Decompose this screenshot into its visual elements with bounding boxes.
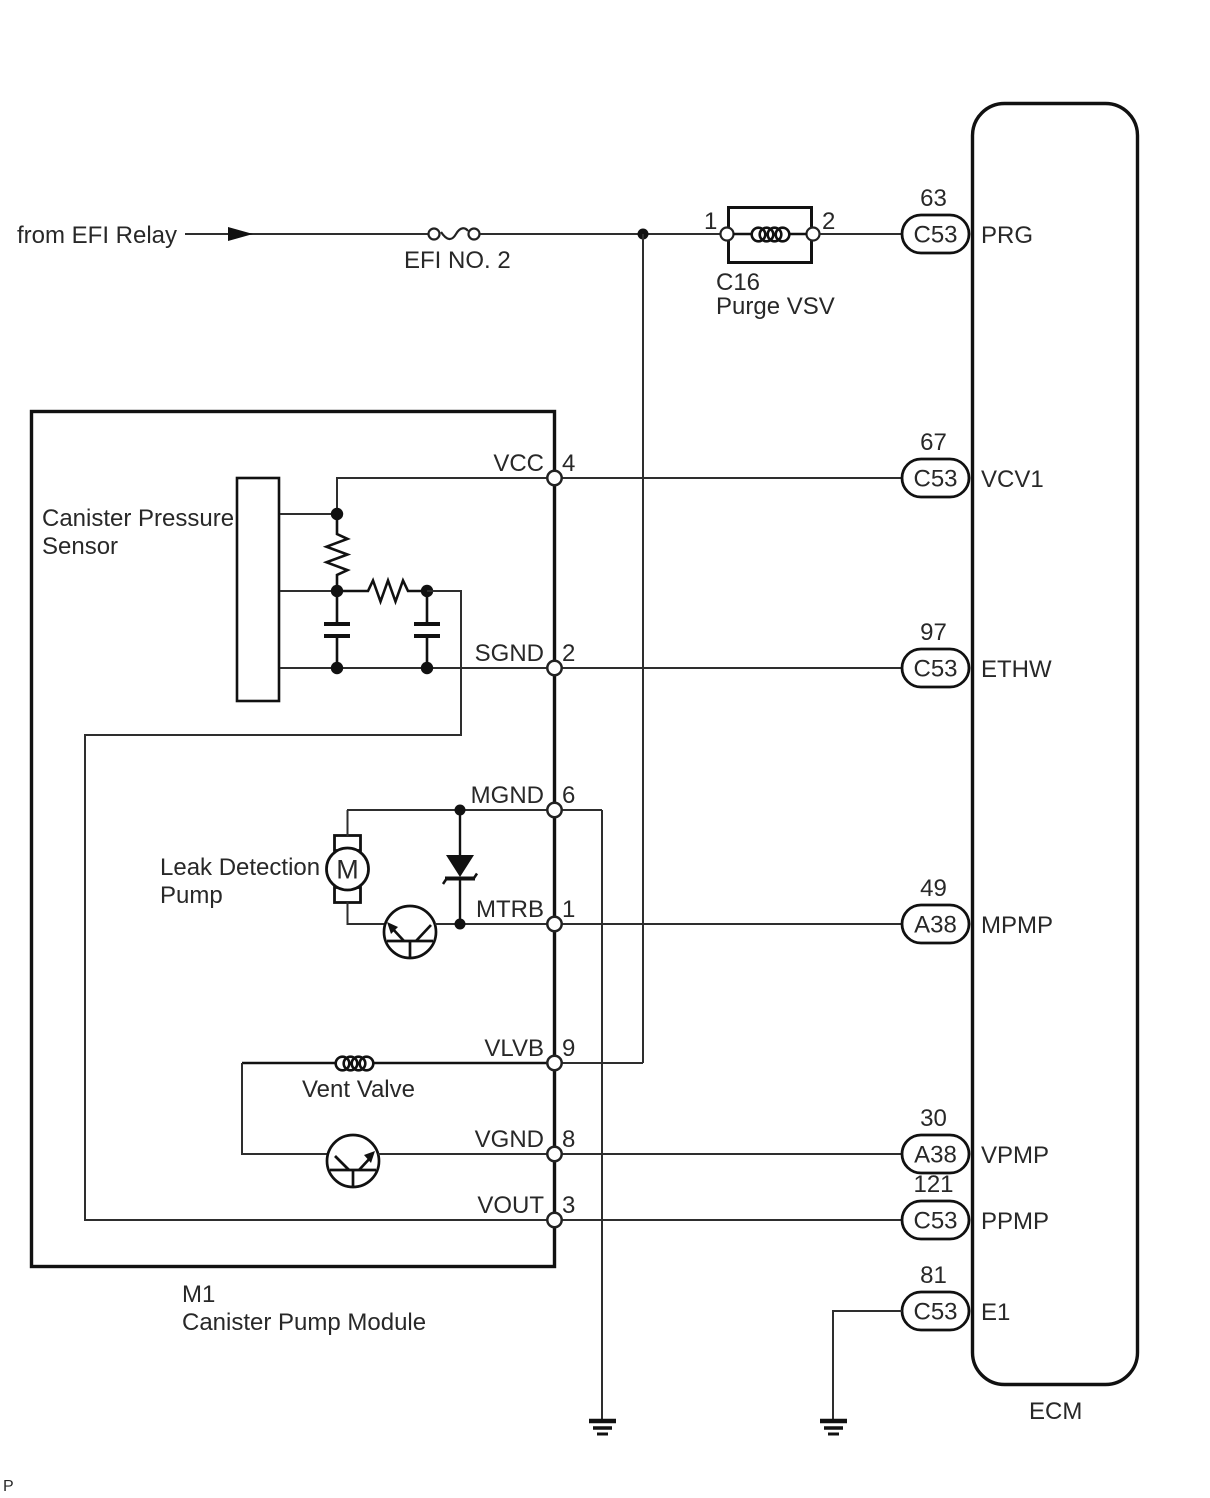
svg-text:VGND: VGND	[475, 1126, 544, 1153]
svg-text:Sensor: Sensor	[42, 533, 118, 560]
svg-text:MTRB: MTRB	[476, 896, 544, 923]
svg-text:P: P	[3, 1478, 14, 1495]
svg-text:8: 8	[562, 1126, 575, 1153]
wire VLVB pin to vertical bus	[561, 1062, 643, 1064]
svg-text:ETHW: ETHW	[981, 656, 1052, 683]
fuse EFI NO. 2	[429, 228, 480, 239]
svg-text:VPMP: VPMP	[981, 1142, 1049, 1169]
wire from EFI Relay to fuse	[185, 233, 428, 235]
capacitor C2	[414, 591, 440, 668]
svg-text:Purge VSV: Purge VSV	[716, 293, 835, 320]
svg-text:VOUT: VOUT	[477, 1192, 544, 1219]
solenoid C16 Purge VSV box	[704, 208, 835, 263]
arrowhead on EFI relay wire	[228, 227, 253, 241]
connector C53 pin 63 (PRG)	[902, 185, 969, 253]
svg-text:PRG: PRG	[981, 222, 1033, 249]
node dot sensor top	[331, 508, 343, 520]
svg-text:9: 9	[562, 1035, 575, 1062]
node dot diode top	[455, 805, 466, 816]
svg-text:SGND: SGND	[475, 640, 544, 667]
svg-text:VCV1: VCV1	[981, 466, 1044, 493]
Leak Detection Pump motor M	[327, 836, 369, 903]
connector C53 pin 121 (PPMP)	[902, 1171, 969, 1239]
svg-text:C53: C53	[913, 466, 957, 493]
svg-text:M: M	[336, 855, 359, 885]
svg-text:C16: C16	[716, 269, 760, 296]
wire motor bottom to transistor	[348, 902, 387, 924]
node dot bottom-left	[331, 662, 343, 674]
pin 4 VCC	[547, 471, 561, 485]
svg-text:3: 3	[562, 1192, 575, 1219]
svg-text:2: 2	[822, 208, 835, 235]
wire fuse to junction	[480, 233, 727, 235]
node dot bottom-right	[421, 662, 433, 674]
wire SGND net: sensor bottom lead to pin 2 and ETHW	[280, 667, 902, 669]
svg-text:97: 97	[920, 619, 947, 646]
transistor Q2	[327, 1135, 379, 1187]
wire sensor top lead	[280, 513, 337, 515]
node junction at top	[638, 229, 649, 240]
svg-text:A38: A38	[914, 912, 957, 939]
connector C53 pin 81 (E1)	[902, 1262, 969, 1330]
wire VOUT sense loop	[85, 591, 902, 1220]
pin 1 MTRB	[547, 917, 561, 931]
svg-text:C53: C53	[913, 222, 957, 249]
ground symbol E1	[820, 1421, 847, 1434]
svg-text:Leak Detection: Leak Detection	[160, 854, 320, 881]
svg-text:4: 4	[562, 450, 575, 477]
wire MGND to chassis ground	[601, 810, 603, 1419]
svg-text:E1: E1	[981, 1299, 1010, 1326]
wire MTRB row	[435, 923, 902, 925]
wire MGND row	[347, 809, 602, 811]
resistor R2 horizontal	[337, 581, 427, 602]
svg-text:C53: C53	[913, 656, 957, 683]
wire C16 to PRG connector	[819, 233, 902, 235]
svg-text:1: 1	[704, 208, 717, 235]
wire vertical bus from junction down to VLVB row	[642, 234, 644, 1063]
pin 8 VGND	[547, 1147, 561, 1161]
svg-text:2: 2	[562, 640, 575, 667]
pin 6 MGND	[547, 803, 561, 817]
coil of C16	[733, 228, 807, 242]
connector A38 pin 30 (VPMP)	[902, 1105, 969, 1173]
resistor R1 vertical	[327, 514, 348, 591]
svg-text:Vent Valve: Vent Valve	[302, 1076, 415, 1103]
svg-text:M1: M1	[182, 1281, 215, 1308]
pin 9 VLVB	[547, 1056, 561, 1070]
wire VCC net: sensor top to pin 4	[337, 478, 902, 514]
svg-text:Canister Pump Module: Canister Pump Module	[182, 1309, 426, 1336]
node dot middle-right	[421, 585, 433, 597]
vent valve coil VLVB	[242, 1057, 548, 1071]
Canister Pressure Sensor box	[237, 478, 279, 701]
M1 Canister Pump Module box	[32, 412, 555, 1267]
svg-text:63: 63	[920, 185, 947, 212]
svg-text:PPMP: PPMP	[981, 1208, 1049, 1235]
connector C53 pin 67 (VCV1)	[902, 429, 969, 497]
svg-text:6: 6	[562, 782, 575, 809]
svg-text:30: 30	[920, 1105, 947, 1132]
diode D1 (zener)	[443, 810, 477, 924]
ECM box	[973, 104, 1138, 1385]
transistor Q1	[384, 906, 436, 958]
wire motor top to MGND	[347, 810, 349, 836]
connector C53 pin 97 (ETHW)	[902, 619, 969, 687]
svg-text:C53: C53	[913, 1299, 957, 1326]
node dot middle-left	[331, 585, 343, 597]
svg-text:A38: A38	[914, 1142, 957, 1169]
svg-text:EFI NO. 2: EFI NO. 2	[404, 247, 511, 274]
capacitor C1	[324, 591, 350, 668]
pin 1 of C16	[721, 228, 734, 241]
wire E1 to chassis ground	[833, 1311, 902, 1419]
svg-text:49: 49	[920, 875, 947, 902]
svg-text:Canister Pressure: Canister Pressure	[42, 505, 234, 532]
svg-text:1: 1	[562, 896, 575, 923]
node dot MTRB-diode junction	[455, 919, 466, 930]
wire vent valve left leg	[242, 1063, 328, 1154]
pin 2 SGND	[547, 661, 561, 675]
svg-text:MPMP: MPMP	[981, 912, 1053, 939]
wire VGND row	[378, 1153, 902, 1155]
svg-text:VLVB: VLVB	[484, 1035, 544, 1062]
svg-text:ECM: ECM	[1029, 1398, 1082, 1425]
svg-text:C53: C53	[913, 1208, 957, 1235]
pin 2 of C16	[807, 228, 820, 241]
svg-text:121: 121	[913, 1171, 953, 1198]
pin 3 VOUT	[547, 1213, 561, 1227]
svg-text:81: 81	[920, 1262, 947, 1289]
svg-text:VCC: VCC	[493, 450, 544, 477]
ground symbol center	[589, 1421, 616, 1434]
connector A38 pin 49 (MPMP)	[902, 875, 969, 943]
svg-text:MGND: MGND	[471, 782, 544, 809]
svg-text:Pump: Pump	[160, 882, 223, 909]
wire sensor middle lead	[280, 590, 337, 592]
svg-text:from EFI Relay: from EFI Relay	[17, 222, 177, 249]
svg-text:67: 67	[920, 429, 947, 456]
